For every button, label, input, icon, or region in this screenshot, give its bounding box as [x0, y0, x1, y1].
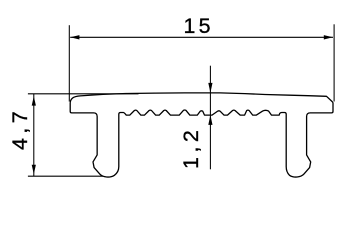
svg-text:1,2: 1,2 — [179, 126, 203, 169]
svg-text:4,7: 4,7 — [8, 107, 32, 150]
svg-text:15: 15 — [183, 14, 213, 38]
